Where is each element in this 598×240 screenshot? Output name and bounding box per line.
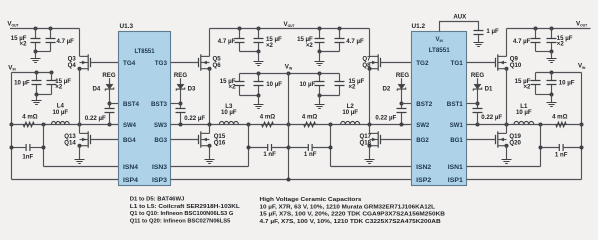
node 1nF left b <box>42 146 46 150</box>
capacitor 1nF (phase 4) <box>12 147 27 149</box>
svg-text:LT8551: LT8551 <box>135 48 155 55</box>
node BST4 <box>108 102 112 106</box>
wire cap join left VOUT <box>36 51 51 53</box>
svg-text:×2: ×2 <box>523 84 531 91</box>
ground Q13 source <box>79 146 81 160</box>
capacitor 15uF x2 (mid-right VOUT) <box>319 29 321 39</box>
node SW3 <box>208 123 212 127</box>
node ISP center <box>287 178 291 182</box>
wire Q5 drain to VOUT <box>209 29 211 57</box>
wire Q17 drain <box>369 125 371 134</box>
svg-text:Q10: Q10 <box>510 62 522 69</box>
wire Q9 drain to VOUT <box>506 29 508 57</box>
capacitor 4.7uF (left VOUT) <box>50 29 52 39</box>
node gnd mid-right VIN <box>318 94 322 98</box>
transistor Q15 Q16 <box>200 131 202 147</box>
node VIN center <box>287 72 291 76</box>
svg-text:Q11 to Q20: Infineon BSC027N06: Q11 to Q20: Infineon BSC027N06LS5 <box>130 219 231 225</box>
svg-text:SW4: SW4 <box>123 122 136 129</box>
svg-text:4 mΩ: 4 mΩ <box>552 113 568 120</box>
op-amp U1.2 LT8551 <box>412 32 467 186</box>
svg-text:10 µF: 10 µF <box>14 80 30 87</box>
svg-text:Q8: Q8 <box>362 62 371 69</box>
transistor Q19 Q20 <box>497 131 499 147</box>
wire REG to D1 <box>477 78 479 84</box>
diode D2 <box>398 84 405 89</box>
wire Q3 drain to VOUT <box>79 29 81 57</box>
node VOUT mid <box>257 27 261 31</box>
svg-text:10 µF: 10 µF <box>516 109 532 116</box>
wire ISP3 ISP2 <box>171 179 412 181</box>
resistor 4mOhm (phase 1) <box>556 122 566 127</box>
node SW1 <box>505 123 509 127</box>
diode D4 <box>106 84 113 89</box>
node bst2 cap <box>400 123 404 127</box>
svg-text:Q20: Q20 <box>509 139 521 146</box>
wire BG1 <box>467 139 496 141</box>
svg-text:0.22 µF: 0.22 µF <box>184 115 205 122</box>
svg-text:D2: D2 <box>383 86 391 93</box>
node VOUT-C47 right <box>534 27 538 31</box>
capacitor 4.7uF (mid-left VOUT) <box>239 29 241 39</box>
inductor L4 10uF <box>51 121 69 124</box>
node sense3 <box>247 123 251 127</box>
wire VIN center vertical <box>288 74 290 180</box>
svg-text:4 mΩ: 4 mΩ <box>22 113 38 120</box>
wire join mid-right VIN <box>320 95 340 97</box>
transistor Q3 Q4 <box>87 54 89 70</box>
wire TG3 <box>171 62 199 64</box>
wire VIN rail right <box>536 72 582 74</box>
svg-text:10 µF: 10 µF <box>559 80 575 87</box>
svg-text:1nF: 1nF <box>22 154 33 161</box>
svg-text:LT8551: LT8551 <box>429 47 450 54</box>
node SW2 <box>368 123 372 127</box>
svg-text:ISN1: ISN1 <box>448 164 463 171</box>
resistor 4mOhm (phase 2) <box>304 122 316 127</box>
wire VOUT rail right <box>507 28 591 30</box>
capacitor 15uF x2 (left VIN) <box>51 73 53 81</box>
capacitor 15uF x2 (mid-left VOUT) <box>258 29 260 39</box>
svg-text:D4: D4 <box>93 86 101 93</box>
capacitor 10uF (mid-right VIN) <box>319 74 321 82</box>
ground Q17 source <box>369 146 371 160</box>
transistor Q7 Q8 <box>377 54 379 70</box>
wire Q7 drain to VOUT <box>369 29 371 57</box>
node gnd join right VIN <box>550 93 554 97</box>
transistor Q17 Q18 <box>377 131 379 147</box>
wire SW rail right <box>467 124 582 126</box>
svg-text:Q4: Q4 <box>68 62 77 69</box>
capacitor 15uF x2 (mid-right VIN) <box>339 74 341 82</box>
svg-text:ISN4: ISN4 <box>123 164 138 171</box>
svg-text:TG4: TG4 <box>123 60 136 67</box>
wire bst cap to SW rail (phase 4) <box>109 113 111 125</box>
resistor 4mOhm (phase 4) <box>23 122 34 127</box>
capacitor 0.22uF (phase 1) <box>473 109 483 113</box>
svg-text:4.7 µF: 4.7 µF <box>346 38 364 45</box>
svg-text:REG: REG <box>396 72 409 79</box>
svg-text:TG2: TG2 <box>416 60 429 67</box>
svg-text:4.7 µF: 4.7 µF <box>57 38 75 45</box>
transistor Q13 Q14 <box>87 131 89 147</box>
diode D1 <box>474 84 481 89</box>
capacitor 4.7uF (right VOUT) <box>535 29 537 39</box>
svg-text:BST1: BST1 <box>447 101 463 108</box>
svg-text:Q14: Q14 <box>64 139 76 146</box>
svg-text:D3: D3 <box>188 86 196 93</box>
inductor L3 10uF <box>219 121 238 124</box>
svg-text:BST2: BST2 <box>416 101 432 108</box>
wire D4 to BST4 node <box>109 89 111 108</box>
wire VIN pin to AUX <box>440 22 479 32</box>
node VOUT mid <box>238 27 242 31</box>
ground right VOUT group <box>551 52 553 59</box>
svg-text:REG: REG <box>471 72 484 79</box>
capacitor 1uF (AUX) <box>474 31 484 35</box>
capacitor 1nF (phase 2) <box>289 147 309 149</box>
svg-text:TG3: TG3 <box>155 60 168 67</box>
svg-text:×2: ×2 <box>349 84 357 91</box>
node gnd join right VOUT <box>550 50 554 54</box>
wire cap join right VIN <box>536 94 552 96</box>
node gnd mid-left VOUT <box>257 50 261 54</box>
node BST2 <box>400 102 404 106</box>
svg-text:BG2: BG2 <box>416 137 429 144</box>
svg-text:ISP3: ISP3 <box>152 177 167 184</box>
svg-text:10 µF: 10 µF <box>299 81 315 88</box>
ground mid-left VIN <box>258 96 260 105</box>
capacitor 0.22uF (phase 4) <box>105 109 115 113</box>
ground left VOUT group <box>35 52 37 59</box>
node VOUT-C47 left <box>49 27 53 31</box>
node VIN-C15 left <box>50 71 54 75</box>
svg-text:10 µF: 10 µF <box>221 109 237 116</box>
capacitor 15uF x2 (left VOUT) <box>35 29 37 39</box>
capacitor 4.7uF (mid-right VOUT) <box>339 29 341 39</box>
wire D3 to BST3 node <box>180 89 182 108</box>
capacitor 10uF (right VIN) <box>551 73 553 81</box>
capacitor 1nF (phase 3) <box>249 147 268 149</box>
ground mid-left VOUT <box>258 52 260 62</box>
svg-text:SW2: SW2 <box>416 122 429 129</box>
wire bst cap to SW rail (phase 1) <box>477 113 479 125</box>
svg-text:1 nF: 1 nF <box>263 151 276 158</box>
wire ISN3 <box>171 166 249 168</box>
ground Q15 source <box>209 146 211 160</box>
wire ISP4 <box>12 179 119 181</box>
capacitor 15uF x2 (right VOUT) <box>551 29 553 39</box>
svg-text:ISP2: ISP2 <box>416 177 431 184</box>
svg-text:×2: ×2 <box>229 84 237 91</box>
wire Q19 drain <box>506 125 508 134</box>
inductor L2 10uF <box>341 121 360 124</box>
node VIN-C10 right <box>550 71 554 75</box>
wire D1 to BST1 node <box>477 89 479 108</box>
node BST4 cap bottom <box>108 123 112 127</box>
wire BST2 <box>402 103 412 105</box>
svg-text:TG1: TG1 <box>451 60 464 67</box>
wire sense vertical 2 <box>330 125 332 167</box>
node nf1 a <box>539 146 543 150</box>
svg-text:Q16: Q16 <box>214 139 226 146</box>
ground mid-right VIN <box>319 96 321 105</box>
wire BST3 <box>171 103 181 105</box>
svg-text:REG: REG <box>102 72 115 79</box>
svg-text:Q1 to Q10: Infineon BSC100N06L: Q1 to Q10: Infineon BSC100N06LS3 G <box>130 211 234 217</box>
node VOUT mid <box>338 27 342 31</box>
node bst1 cap <box>476 123 480 127</box>
capacitor 0.22uF (phase 2) <box>397 109 407 113</box>
node VIN center rail <box>287 123 291 127</box>
wire Q3 source to SW4 <box>79 69 81 125</box>
svg-text:10 µF: 10 µF <box>266 81 282 88</box>
node gnd join left VOUT <box>34 50 38 54</box>
svg-text:4.7 µF: 4.7 µF <box>218 38 236 45</box>
wire VOUT rail left <box>10 28 80 30</box>
wire Q9 source to SW1 <box>506 69 508 125</box>
svg-text:D1: D1 <box>485 86 493 93</box>
capacitor 10uF (mid-left VIN) <box>258 74 260 82</box>
wire SW rail middle <box>171 124 412 126</box>
capacitor 0.22uF (phase 3) <box>176 109 186 113</box>
wire BST1 <box>467 103 478 105</box>
wire VIN feed right vertical <box>581 73 583 180</box>
wire VIN feed left vertical <box>11 73 13 180</box>
capacitor 15uF x2 (right VIN) <box>535 73 537 81</box>
resistor 4mOhm (phase 3) <box>262 122 274 127</box>
svg-text:ISN3: ISN3 <box>152 164 167 171</box>
node 1nF left a <box>10 146 14 150</box>
wire TG1 <box>467 62 496 64</box>
wire sense vertical 1 <box>540 125 542 167</box>
svg-text:SW1: SW1 <box>450 122 463 129</box>
svg-text:1 nF: 1 nF <box>555 151 568 158</box>
wire VOUT rail middle <box>210 28 370 30</box>
svg-text:U1.2: U1.2 <box>412 23 426 30</box>
node VIN mid-right <box>318 72 322 76</box>
node gnd mid-right VOUT <box>318 50 322 54</box>
svg-text:BG4: BG4 <box>123 137 136 144</box>
ground mid-right VOUT <box>319 52 321 62</box>
wire VIN rail left <box>12 72 52 74</box>
svg-text:×2: ×2 <box>266 42 274 49</box>
wire Q7 source to SW2 <box>369 69 371 125</box>
svg-text:×2: ×2 <box>306 42 314 49</box>
ground AUX cap <box>478 35 480 43</box>
svg-text:10 µF, X7R, 63 V, 10%, 1210 Mu: 10 µF, X7R, 63 V, 10%, 1210 Murata GRM32… <box>260 204 436 210</box>
wire TG4 <box>91 62 119 64</box>
capacitor 15uF x2 (mid-left VIN) <box>239 74 241 82</box>
wire sense vertical 3 <box>248 125 250 167</box>
wire BG2 <box>381 139 412 141</box>
wire join mid-left VIN <box>240 95 259 97</box>
wire ISN4 <box>44 166 119 168</box>
transistor Q5 Q6 <box>200 54 202 70</box>
svg-text:4 mΩ: 4 mΩ <box>260 113 276 120</box>
note parts list left <box>130 196 240 224</box>
ground Q19 source <box>506 146 508 160</box>
node VIN-SW rail right <box>580 123 584 127</box>
node VIN-C10 left <box>35 71 39 75</box>
wire bst cap to SW rail (phase 2) <box>401 113 403 125</box>
node bst3 cap <box>179 123 183 127</box>
node VIN-SW rail left <box>10 123 14 127</box>
svg-text:×2: ×2 <box>557 41 565 48</box>
wire BG4 <box>91 139 119 141</box>
node gnd join left VIN <box>35 93 39 97</box>
svg-text:ISP4: ISP4 <box>123 177 138 184</box>
capacitor 1nF (phase 1) <box>541 147 560 149</box>
node nf3 a <box>247 146 251 150</box>
wire REG to D2 <box>401 78 403 84</box>
transistor Q9 Q10 <box>497 54 499 70</box>
svg-text:L1 to L5: Coilcraft SER2918H-1: L1 to L5: Coilcraft SER2918H-103KL <box>130 204 240 210</box>
svg-text:4.7 µF: 4.7 µF <box>513 38 531 45</box>
wire BST4 <box>110 103 119 105</box>
svg-text:15 µF, X7S, 100 V, 20%, 2220 T: 15 µF, X7S, 100 V, 20%, 2220 TDK CGA9P3X… <box>260 212 445 218</box>
svg-text:AUX: AUX <box>453 14 467 21</box>
node sense left <box>42 123 46 127</box>
wire sense vertical left A <box>43 125 45 167</box>
svg-text:ISP1: ISP1 <box>448 177 463 184</box>
inductor L1 10uF <box>514 121 534 124</box>
svg-text:Q6: Q6 <box>213 62 222 69</box>
svg-text:×2: ×2 <box>20 41 28 48</box>
node VOUT mid <box>318 27 322 31</box>
note capacitors right <box>260 197 445 225</box>
svg-text:1 µF: 1 µF <box>486 28 499 35</box>
op-amp U1.3 LT8551 <box>119 32 171 186</box>
wire REG to D4 <box>109 78 111 84</box>
wire Q5 source to SW3 <box>209 69 211 125</box>
wire ISN2 <box>331 166 412 168</box>
wire TG2 <box>381 62 412 64</box>
node sense1 <box>539 123 543 127</box>
wire Q13 drain to SW rail <box>79 125 81 134</box>
node SW4 <box>78 123 82 127</box>
wire SW rail left <box>12 124 119 126</box>
node VIN mid-left <box>257 72 261 76</box>
diode D3 <box>177 84 184 89</box>
svg-text:Q18: Q18 <box>359 139 371 146</box>
node VOUT-C15 right <box>550 27 554 31</box>
svg-text:0.22 µF: 0.22 µF <box>481 114 502 121</box>
svg-text:10 µF: 10 µF <box>52 109 68 116</box>
node nf2 b <box>329 146 333 150</box>
svg-text:High Voltage Ceramic Capacitor: High Voltage Ceramic Capacitors <box>260 197 363 203</box>
svg-text:BST4: BST4 <box>123 101 139 108</box>
wire Q15 drain <box>209 125 211 134</box>
node BST1 <box>476 102 480 106</box>
svg-text:BG1: BG1 <box>450 137 463 144</box>
svg-text:BG3: BG3 <box>154 137 167 144</box>
svg-text:0.22 µF: 0.22 µF <box>85 115 106 122</box>
svg-text:0.22 µF: 0.22 µF <box>375 115 396 122</box>
svg-text:SW3: SW3 <box>154 122 167 129</box>
svg-text:4 mΩ: 4 mΩ <box>302 113 318 120</box>
node nf3 b <box>287 146 291 150</box>
capacitor 10uF (left VIN) <box>36 73 38 81</box>
svg-text:REG: REG <box>174 72 187 79</box>
node nf1 b <box>580 146 584 150</box>
svg-text:4.7 µF, X7S, 100 V, 10%, 1210: 4.7 µF, X7S, 100 V, 10%, 1210 TDK C3225X… <box>260 219 441 225</box>
wire join mid-left VOUT <box>240 51 259 53</box>
svg-text:1 nF: 1 nF <box>304 151 317 158</box>
ground right VIN group <box>551 95 553 103</box>
svg-text:ISN2: ISN2 <box>416 164 431 171</box>
wire VIN rail middle <box>240 73 340 75</box>
wire join mid-right VOUT <box>320 51 340 53</box>
svg-text:10 µF: 10 µF <box>342 109 358 116</box>
svg-text:BST3: BST3 <box>151 101 167 108</box>
wire ISP1 <box>467 179 582 181</box>
node BST3 <box>179 102 183 106</box>
node gnd mid-left VIN <box>257 94 261 98</box>
wire BG3 <box>171 139 199 141</box>
wire bst cap to SW rail (phase 3) <box>180 113 182 125</box>
wire cap join left VIN <box>37 94 52 96</box>
svg-text:×2: ×2 <box>55 84 63 91</box>
node sense2 <box>329 123 333 127</box>
wire ISN1 <box>467 166 541 168</box>
ground left VIN group <box>36 95 38 101</box>
wire REG to D3 <box>180 78 182 84</box>
svg-text:U1.3: U1.3 <box>120 23 134 30</box>
svg-text:D1 to D5: BAT46WJ: D1 to D5: BAT46WJ <box>130 196 185 202</box>
wire cap join right VOUT <box>536 51 552 53</box>
wire D2 to BST2 node <box>401 89 403 108</box>
node VOUT-C15 left <box>34 27 38 31</box>
